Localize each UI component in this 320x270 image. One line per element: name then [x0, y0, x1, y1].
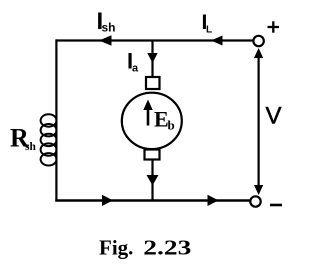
V measurement line (double arrow)	[258, 52, 260, 191]
arrowhead I_a (points down)	[147, 53, 157, 63]
svg-text:Fig.: Fig.	[99, 236, 133, 260]
terminal - circle	[250, 196, 260, 206]
svg-text:sh: sh	[102, 21, 116, 35]
arrowhead bottom wire left (points right)	[102, 195, 113, 206]
wire: bottom horizontal	[55, 199, 250, 201]
plus sign	[268, 26, 280, 28]
brush bottom	[145, 150, 160, 160]
arrowhead bottom wire right (points right)	[208, 195, 219, 206]
E_b arrow (points up inside circle)	[147, 106, 150, 126]
svg-text:V: V	[266, 102, 282, 129]
svg-text:E: E	[154, 107, 169, 132]
wire: left vertical	[55, 39, 57, 201]
svg-text:a: a	[132, 63, 139, 75]
terminal + circle	[253, 36, 263, 46]
inductor R_sh coil loops	[41, 114, 57, 165]
arrowhead I_L (points left)	[211, 36, 223, 46]
wire: top horizontal from left corner to + terminal	[56, 39, 254, 41]
wire: armature top lead	[151, 41, 153, 79]
armature circle (motor)	[122, 93, 182, 149]
wire: armature bottom lead	[151, 160, 153, 202]
svg-text:L: L	[206, 25, 212, 36]
svg-text:sh: sh	[25, 141, 36, 153]
svg-text:2.23: 2.23	[143, 236, 191, 260]
svg-text:b: b	[168, 118, 175, 133]
brush top	[146, 77, 160, 89]
minus sign	[270, 204, 282, 207]
arrowhead I_sh (points left)	[99, 35, 112, 45]
arrowhead armature bottom (points down)	[147, 175, 159, 186]
